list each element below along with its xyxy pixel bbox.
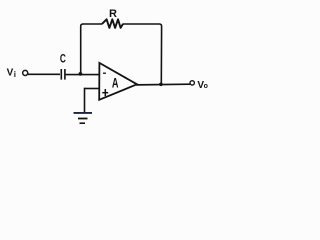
wire op-amp output bbox=[136, 83, 190, 86]
ground bar 2 bbox=[78, 118, 88, 120]
node Vi input terminal bbox=[23, 70, 28, 75]
wire plus input to ground drop bbox=[85, 88, 100, 90]
op-amp plus sign bbox=[102, 92, 108, 94]
capacitor C right plate bbox=[64, 69, 66, 80]
svg-text:V: V bbox=[7, 68, 14, 79]
svg-text:A: A bbox=[112, 77, 119, 91]
svg-text:R: R bbox=[109, 8, 117, 20]
node junction output/feedback bbox=[159, 83, 163, 87]
svg-text:o: o bbox=[204, 83, 208, 90]
svg-text:C: C bbox=[60, 53, 66, 66]
resistor R zigzag bbox=[102, 19, 123, 28]
wire capacitor to op-amp inverting input bbox=[66, 74, 100, 76]
svg-text:i: i bbox=[14, 70, 16, 79]
wire ground vertical bbox=[84, 88, 86, 113]
capacitor C left plate bbox=[60, 69, 62, 80]
wire feedback top right segment bbox=[123, 24, 162, 85]
ground bar 1 bbox=[74, 112, 93, 114]
wire input to capacitor bbox=[28, 73, 60, 75]
wire feedback top left segment bbox=[83, 23, 103, 25]
node junction input/feedback bbox=[79, 72, 83, 76]
wire feedback left vertical bbox=[81, 24, 83, 75]
op-amp A triangle bbox=[99, 63, 137, 100]
op-amp minus sign bbox=[103, 72, 106, 74]
node Vo output terminal bbox=[190, 81, 194, 85]
ground bar 3 bbox=[80, 122, 86, 124]
